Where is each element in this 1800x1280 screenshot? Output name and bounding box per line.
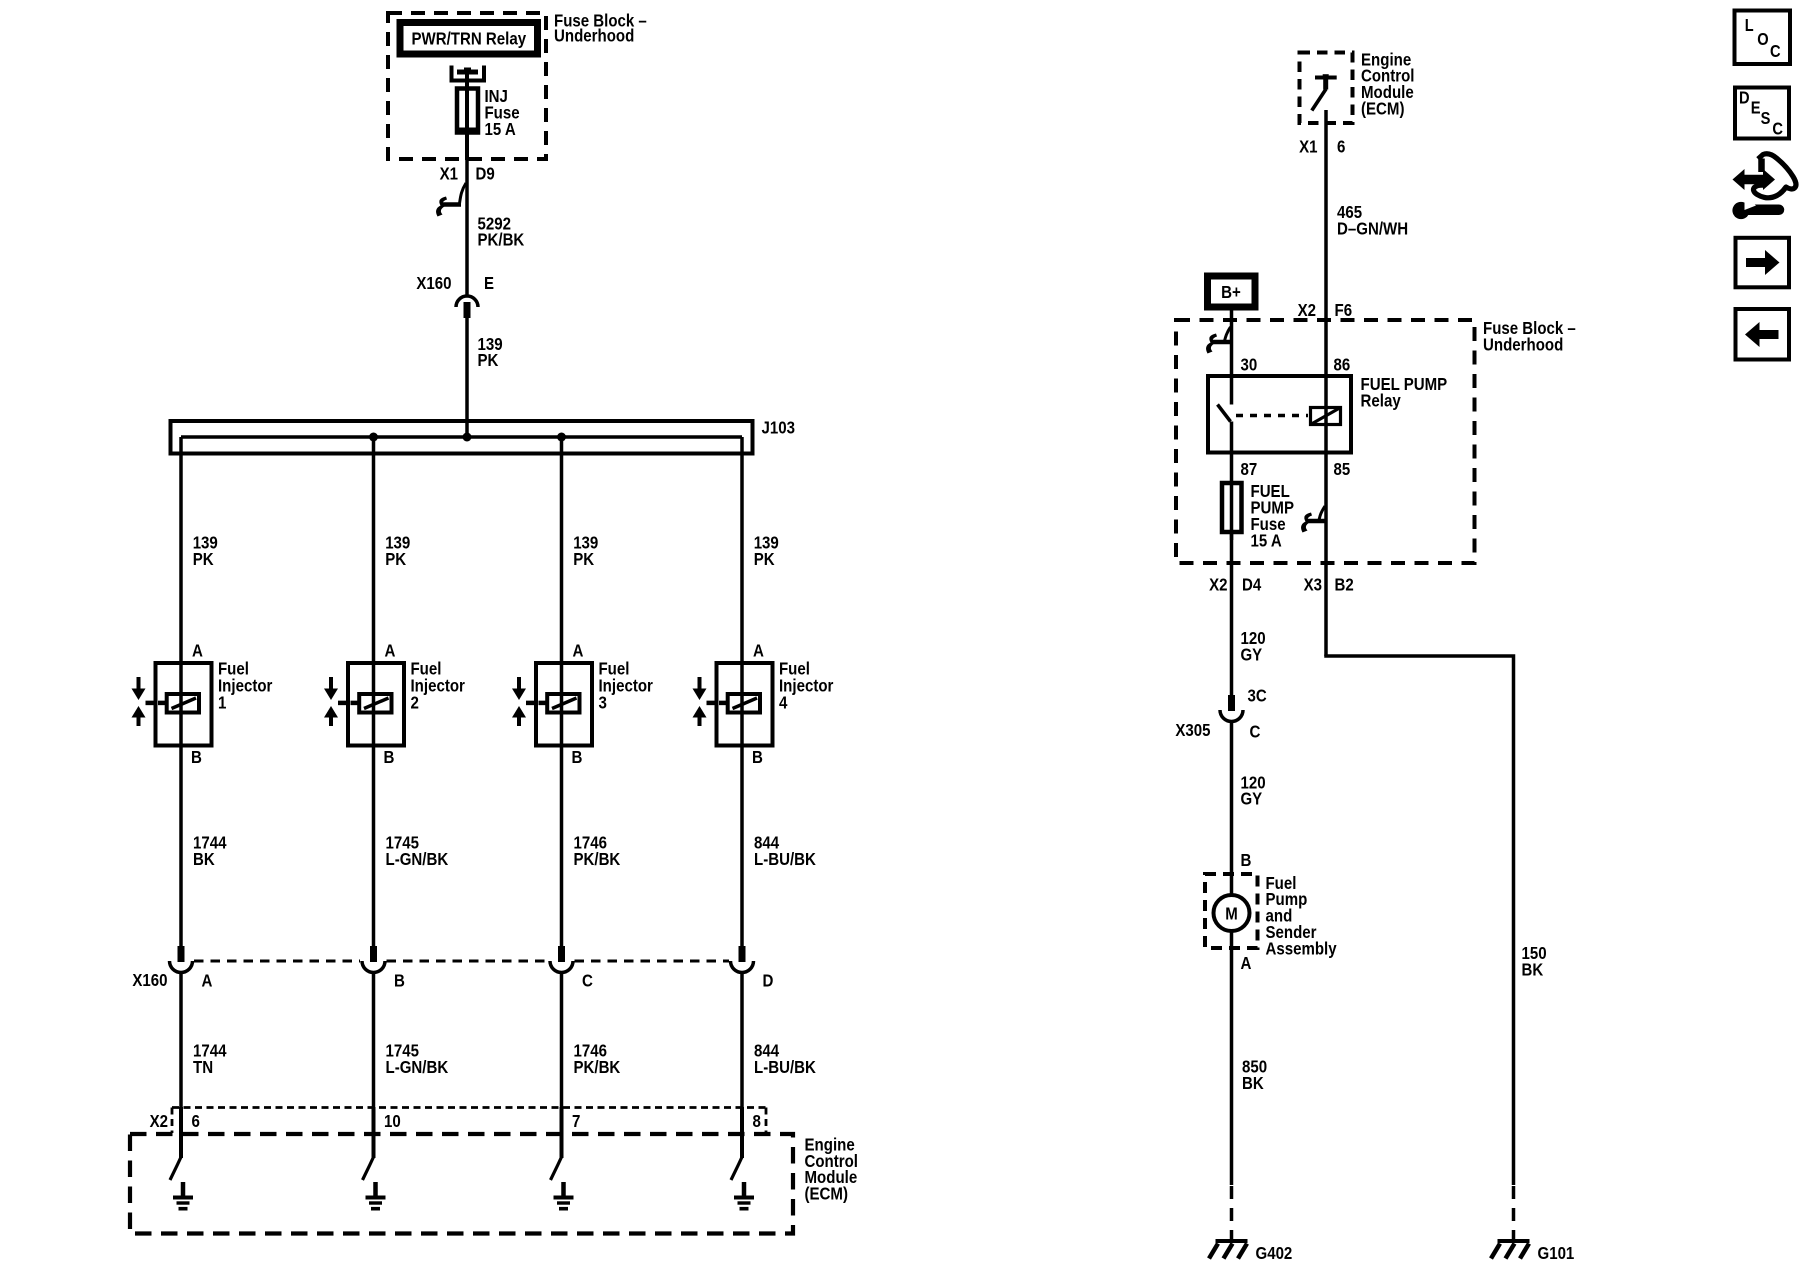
wire fuse to X305 (120 GY) <box>1232 532 1266 696</box>
svg-text:BK: BK <box>193 849 215 869</box>
connector X2 pin 8 label <box>753 1111 762 1131</box>
svg-text:L-BU/BK: L-BU/BK <box>754 1057 816 1077</box>
wire J103 to fuel injector 1 (139 PK) <box>181 437 218 663</box>
svg-text:X1: X1 <box>1299 136 1318 156</box>
svg-text:G402: G402 <box>1256 1243 1293 1263</box>
svg-text:85: 85 <box>1334 459 1351 479</box>
svg-text:PK: PK <box>754 549 775 569</box>
svg-text:3C: 3C <box>1248 685 1268 705</box>
svg-text:PK: PK <box>478 350 499 370</box>
fuel injector 2 <box>324 659 465 746</box>
svg-text:(ECM): (ECM) <box>805 1184 849 1204</box>
svg-text:B: B <box>1241 850 1252 870</box>
wiring repair nav icon (double arrow + wrench) <box>1732 154 1796 219</box>
svg-text:B: B <box>384 747 395 767</box>
svg-text:D: D <box>763 970 774 990</box>
relay 85 take-out hook symbol <box>1301 506 1326 533</box>
svg-text:PK/BK: PK/BK <box>478 230 525 250</box>
wire 1744 TN to ECM <box>181 973 227 1109</box>
svg-text:TN: TN <box>193 1057 213 1077</box>
ECM label (right) <box>1361 49 1415 118</box>
connector X160 pin A <box>170 946 213 990</box>
svg-text:B: B <box>572 747 583 767</box>
PWR/TRN Relay <box>400 23 538 55</box>
svg-text:L-GN/BK: L-GN/BK <box>386 1057 449 1077</box>
connector X160 pin D <box>731 946 774 990</box>
fuel injector 2 pin B <box>384 747 395 767</box>
svg-text:L-GN/BK: L-GN/BK <box>386 849 449 869</box>
ECM fuel pump relay driver switch <box>1312 74 1337 110</box>
fuse block label (right) <box>1483 318 1576 354</box>
junction dot (branch 3) <box>557 433 566 442</box>
connector X2 name label <box>150 1111 169 1131</box>
wire J103 to fuel injector 3 (139 PK) <box>562 437 599 663</box>
svg-text:J103: J103 <box>762 418 796 438</box>
svg-text:6: 6 <box>1337 136 1346 156</box>
engine control module (ECM) dashed box (right) <box>1300 53 1353 124</box>
svg-text:10: 10 <box>384 1111 401 1131</box>
wire 1745 L-GN/BK to ECM <box>374 973 449 1109</box>
wire X305 to fuel pump (120 GY) <box>1232 722 1266 896</box>
svg-text:X1: X1 <box>440 164 459 184</box>
svg-text:B+: B+ <box>1221 282 1241 302</box>
connector X160 name label <box>132 970 167 990</box>
svg-text:6: 6 <box>192 1111 201 1131</box>
connector X2 dashed line <box>172 1108 766 1134</box>
svg-text:B: B <box>394 970 405 990</box>
wire relay 87 to fuse <box>1230 422 1234 541</box>
ground symbol inside ECM (pin 7) <box>554 1182 574 1209</box>
svg-text:A: A <box>385 641 396 661</box>
svg-text:C: C <box>1772 119 1783 139</box>
svg-text:4: 4 <box>779 692 788 712</box>
connector X160 pin E <box>416 273 494 318</box>
fuel injector 4 pin B <box>752 747 763 767</box>
fuse holder clip bracket <box>452 66 485 81</box>
svg-text:E: E <box>1751 97 1761 117</box>
fuse block - underhood (right) dashed box <box>1176 320 1475 563</box>
svg-text:BK: BK <box>1522 960 1544 980</box>
fuel injector 1 <box>132 659 273 746</box>
wire 150 BK dashed tail <box>1512 1186 1516 1241</box>
fuel injector 1 pin B <box>191 747 202 767</box>
LOC nav icon <box>1735 11 1791 65</box>
svg-text:B: B <box>191 747 202 767</box>
svg-text:GY: GY <box>1241 644 1263 664</box>
svg-text:E: E <box>484 273 494 293</box>
svg-text:D: D <box>1739 88 1750 108</box>
connector X160 dashed line <box>194 960 729 963</box>
svg-text:X2: X2 <box>150 1111 169 1131</box>
fuel pump and sender assembly dashed box <box>1205 874 1258 948</box>
svg-text:Assembly: Assembly <box>1266 938 1337 958</box>
ground G402 <box>1209 1241 1293 1263</box>
fuel injector 4 <box>693 659 834 746</box>
connector X1 pin 6 labels <box>1299 136 1346 156</box>
svg-text:B2: B2 <box>1335 574 1354 594</box>
fuse block - underhood (left) dashed box <box>388 13 546 159</box>
svg-text:3: 3 <box>599 692 608 712</box>
svg-text:87: 87 <box>1241 459 1258 479</box>
svg-text:M: M <box>1225 904 1238 924</box>
ECM label (left) <box>805 1134 859 1203</box>
svg-text:PK: PK <box>193 549 214 569</box>
svg-text:30: 30 <box>1241 354 1258 374</box>
svg-text:X2: X2 <box>1209 574 1228 594</box>
svg-text:X305: X305 <box>1175 720 1210 740</box>
svg-text:1: 1 <box>218 692 227 712</box>
svg-text:A: A <box>192 641 203 661</box>
svg-text:2: 2 <box>411 692 420 712</box>
svg-text:X3: X3 <box>1304 574 1323 594</box>
wire 1746 PK/BK <box>562 746 621 948</box>
wire 850 BK dashed tail <box>1230 1186 1234 1241</box>
svg-text:F6: F6 <box>1335 300 1353 320</box>
svg-text:D9: D9 <box>476 164 495 184</box>
svg-text:D–GN/WH: D–GN/WH <box>1337 219 1408 239</box>
junction dot (branch 2) <box>369 433 378 442</box>
svg-text:BK: BK <box>1242 1073 1264 1093</box>
back arrow nav icon <box>1736 309 1790 360</box>
ECM low-side driver switch (pin 10) <box>363 1107 374 1180</box>
svg-text:Underhood: Underhood <box>1483 335 1563 355</box>
svg-text:D4: D4 <box>1242 574 1261 594</box>
connector X2 pin 7 label <box>572 1111 580 1131</box>
svg-text:Underhood: Underhood <box>554 26 634 46</box>
fuel pump assembly label <box>1266 873 1337 959</box>
wire J103 to fuel injector 4 (139 PK) <box>742 437 779 663</box>
svg-text:86: 86 <box>1334 354 1351 374</box>
wire J103 to fuel injector 2 (139 PK) <box>374 437 411 663</box>
svg-text:GY: GY <box>1241 789 1263 809</box>
junction dot (feed at J103) <box>463 433 472 442</box>
FUEL PUMP relay <box>1208 374 1447 452</box>
fuel injector 3 pin A <box>573 641 584 661</box>
engine control module (ECM) dashed box (left) <box>130 1134 793 1234</box>
svg-text:PWR/TRN Relay: PWR/TRN Relay <box>412 29 527 49</box>
fuel injector 3 <box>512 659 653 746</box>
fuel pump pin A label <box>1241 953 1252 973</box>
wire 465 D-GN/WH <box>1326 110 1408 656</box>
splice pack J103 <box>171 418 796 454</box>
svg-text:A: A <box>753 641 764 661</box>
forward arrow nav icon <box>1736 238 1790 287</box>
DESC nav icon <box>1735 88 1789 139</box>
FUEL PUMP Fuse 15 A <box>1222 481 1294 550</box>
connector X2 pin F6 labels <box>1298 300 1353 320</box>
B+ take-out hook symbol <box>1206 327 1230 354</box>
wire B+ to relay pin 30 <box>1230 307 1234 405</box>
ECM low-side driver switch (pin 6) <box>170 1107 181 1180</box>
wire 139 PK feed + label <box>467 318 503 437</box>
svg-text:C: C <box>582 970 593 990</box>
wire 844 L-BU/BK to ECM <box>742 973 816 1109</box>
svg-text:7: 7 <box>572 1111 580 1131</box>
svg-text:G101: G101 <box>1538 1243 1575 1263</box>
relay pin 30 and 86 labels <box>1241 354 1351 374</box>
B+ battery feed <box>1208 276 1256 307</box>
wire 850 BK <box>1232 931 1268 1185</box>
connector X160 pin B <box>362 946 405 990</box>
svg-text:PK/BK: PK/BK <box>574 849 621 869</box>
connector X1 pin D9 labels <box>440 164 495 184</box>
ECM low-side driver switch (pin 8) <box>731 1107 742 1180</box>
fuel pump pin B label <box>1241 850 1252 870</box>
connector X1/D9 take-out hook symbol <box>436 183 466 217</box>
connector X2 pin 10 label <box>384 1111 401 1131</box>
svg-text:L: L <box>1745 15 1754 35</box>
fuel injector 2 pin A <box>385 641 396 661</box>
svg-text:A: A <box>573 641 584 661</box>
fuel injector 3 pin B <box>572 747 583 767</box>
svg-text:A: A <box>1241 953 1252 973</box>
wire 1745 L-GN/BK <box>374 746 449 948</box>
INJ Fuse 15 A <box>457 70 520 161</box>
svg-text:C: C <box>1250 722 1261 742</box>
svg-text:PK/BK: PK/BK <box>574 1057 621 1077</box>
svg-text:C: C <box>1770 41 1781 61</box>
ECM low-side driver switch (pin 7) <box>551 1107 562 1180</box>
fuel injector 4 pin A <box>753 641 764 661</box>
svg-text:(ECM): (ECM) <box>1361 99 1405 119</box>
fuse block label <box>554 10 647 45</box>
svg-text:B: B <box>752 747 763 767</box>
connector X160 pin C <box>550 946 593 990</box>
ground symbol inside ECM (pin 8) <box>734 1182 754 1209</box>
connector X305 pin C (3C) <box>1175 685 1267 741</box>
svg-text:S: S <box>1761 108 1771 128</box>
wire 1746 PK/BK to ECM <box>562 973 621 1109</box>
svg-text:X160: X160 <box>416 273 451 293</box>
relay pin 87 and 85 labels <box>1241 459 1351 479</box>
wire 1744 BK <box>181 746 227 948</box>
svg-text:X2: X2 <box>1298 300 1317 320</box>
svg-text:PK: PK <box>385 549 406 569</box>
svg-text:8: 8 <box>753 1111 762 1131</box>
fuel pump motor M <box>1214 895 1250 931</box>
connector X2 pin 6 label <box>192 1111 201 1131</box>
svg-text:15 A: 15 A <box>1251 530 1283 550</box>
svg-text:PK: PK <box>573 549 594 569</box>
ground symbol inside ECM (pin 6) <box>173 1182 193 1209</box>
ground symbol inside ECM (pin 10) <box>366 1182 386 1209</box>
svg-text:15 A: 15 A <box>485 119 517 139</box>
svg-text:O: O <box>1757 29 1768 49</box>
wire 844 L-BU/BK <box>742 746 816 948</box>
ground G101 <box>1491 1241 1575 1263</box>
svg-text:Relay: Relay <box>1361 391 1401 411</box>
wire relay 85 to G101 (150 BK) <box>1326 655 1547 1186</box>
svg-text:A: A <box>202 970 213 990</box>
svg-text:X160: X160 <box>132 970 167 990</box>
fuel injector 1 pin A <box>192 641 203 661</box>
connector labels X2 D4 / X3 B2 <box>1209 574 1354 594</box>
wire 5292 PK/BK vertical + label <box>467 160 525 297</box>
svg-text:L-BU/BK: L-BU/BK <box>754 849 816 869</box>
